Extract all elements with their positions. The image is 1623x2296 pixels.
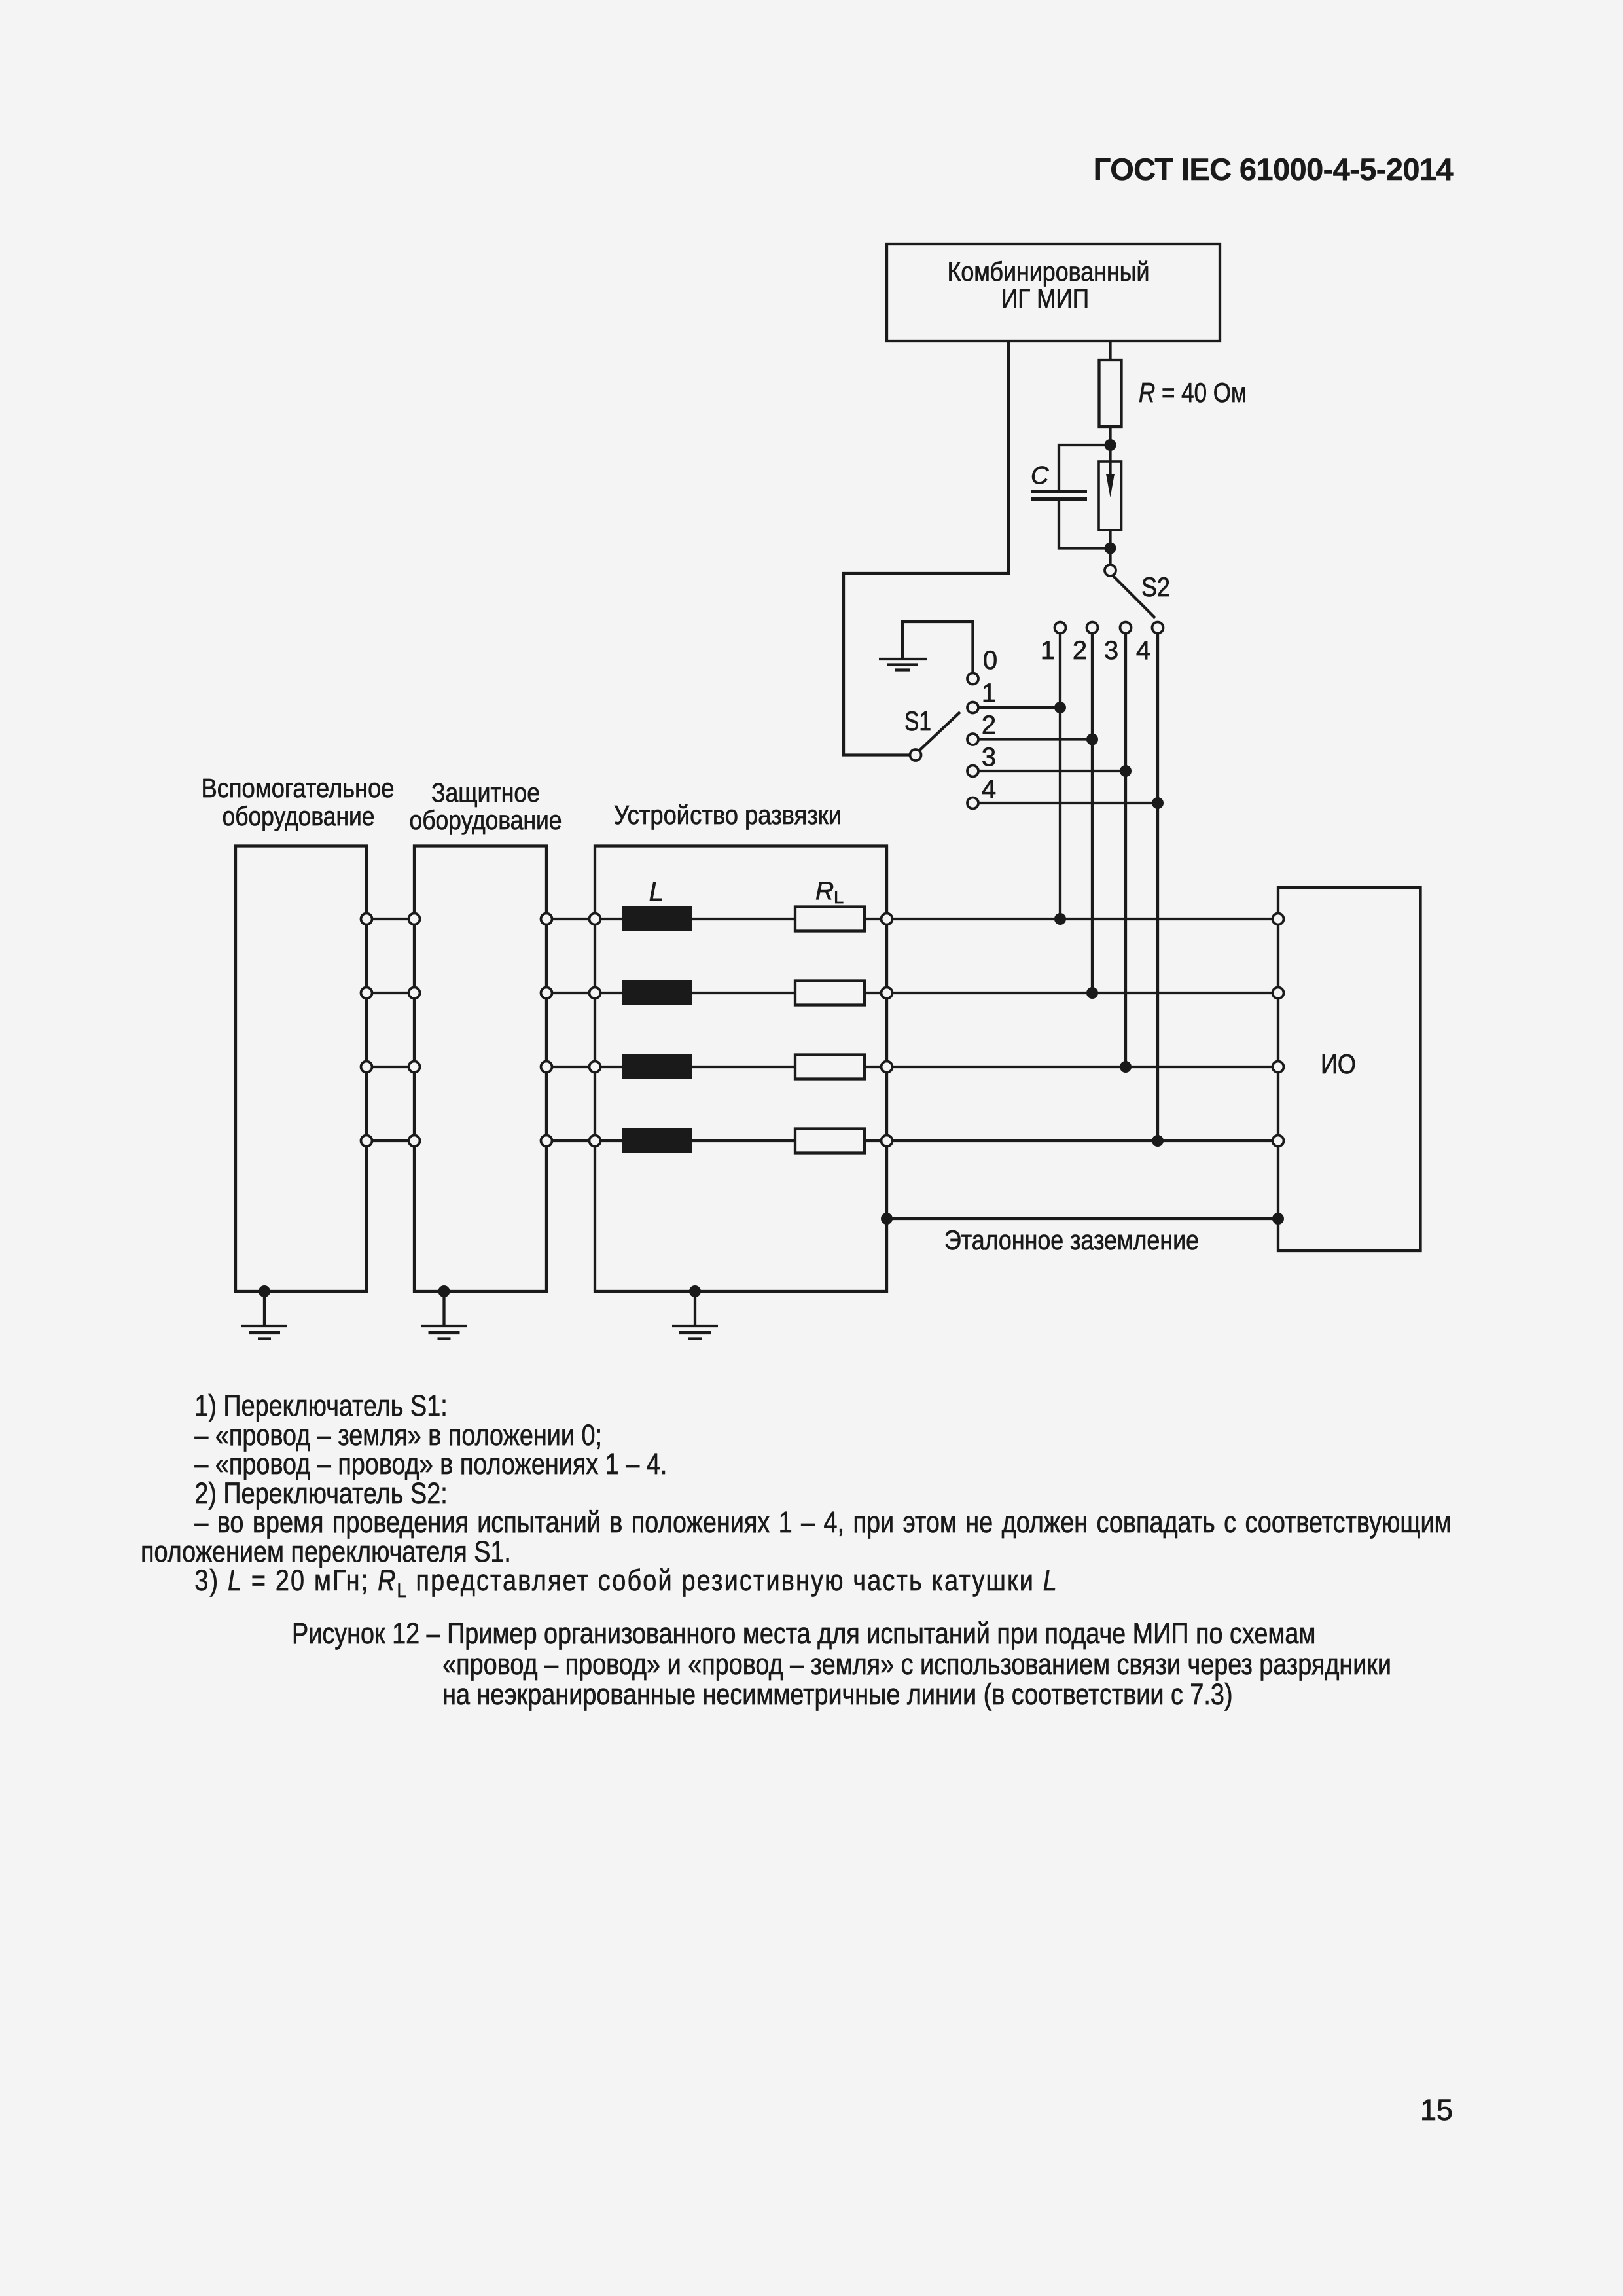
svg-text:ИО: ИО (1321, 1049, 1356, 1079)
svg-text:оборудование: оборудование (410, 805, 562, 835)
row 4: wire decoupling to EUT (893, 1139, 1273, 1142)
wire S1 contact 1 to net 1 (978, 706, 1060, 709)
svg-text:Защитное: Защитное (431, 778, 540, 808)
junction net 3 / line row 3 (1120, 1061, 1132, 1073)
wire net 2 vertical (1091, 634, 1094, 994)
ground (S1 position 0) (879, 659, 927, 670)
S2 contact 1 (1055, 622, 1066, 634)
svg-text:Комбинированный: Комбинированный (948, 257, 1150, 287)
junction net 4 / line row 4 (1152, 1135, 1164, 1147)
row 3: wire resistor to port (865, 1066, 882, 1068)
row 4: wire aux to protective (366, 1139, 414, 1142)
row 3 port on aux box (361, 1062, 372, 1073)
row 3: wire decoupling to EUT (893, 1066, 1273, 1068)
svg-text:2: 2 (982, 711, 996, 740)
wire S1 contact 3 to net 3 (978, 770, 1126, 772)
resistor R (1099, 360, 1122, 427)
row 2 port on decoupling box left (590, 988, 601, 999)
reference earth wire (887, 1217, 1278, 1220)
auxiliary equipment box (236, 846, 366, 1292)
row 2: wire aux to protective (366, 992, 414, 994)
ground decoupling box (672, 1291, 718, 1339)
row 4: wire protective to decoupling (546, 1139, 595, 1142)
svg-text:L: L (649, 876, 664, 906)
junction aux box ground (259, 1285, 270, 1297)
S1 contact 1 (967, 702, 978, 713)
svg-text:4: 4 (982, 775, 996, 804)
row 3 port on EUT (1273, 1062, 1284, 1073)
row 3 port on decoupling box right (882, 1062, 893, 1073)
row 2: wire decoupling to EUT (893, 992, 1273, 994)
junction net 3 / S1 contact 3 (1120, 765, 1132, 777)
row 4: wire resistor to port (865, 1139, 882, 1142)
protective equipment box (414, 846, 546, 1292)
ground protective box (421, 1291, 467, 1339)
row 2: wire port to inductor (601, 992, 623, 994)
row 2 port on protective box left (409, 988, 420, 999)
svg-text:S2: S2 (1141, 571, 1170, 602)
wire node A to capacitor top (1059, 445, 1111, 491)
row 2: wire inductor to resistor (692, 992, 795, 994)
row 2 port on decoupling box right (882, 988, 893, 999)
junction net 2 / S1 contact 2 (1086, 734, 1098, 745)
figure caption (292, 1619, 1556, 1710)
row 4 port on aux box (361, 1136, 372, 1147)
wire S1 contact 2 to net 2 (978, 738, 1092, 740)
row 4 port on EUT (1273, 1136, 1284, 1147)
switch S2 blade (1113, 576, 1156, 619)
wire node B to switch S2 pole (1109, 554, 1111, 565)
wire net 4 vertical (1156, 634, 1159, 1141)
wire resistor bottom to node A (1109, 427, 1111, 445)
wire capacitor bottom to node B (1059, 501, 1111, 548)
junction decoupling box ground (689, 1285, 701, 1297)
svg-text:Вспомогательное: Вспомогательное (202, 773, 395, 803)
generator box "Комбинированный ИГ МИП" (887, 244, 1220, 341)
svg-text:ИГ МИП: ИГ МИП (1001, 283, 1089, 314)
resistor RL row 3 (795, 1055, 865, 1079)
row 2 port on aux box (361, 988, 372, 999)
label protective equipment (410, 778, 562, 835)
row 3 port on protective box left (409, 1062, 420, 1073)
EUT box ИО (1278, 888, 1421, 1251)
svg-text:RL: RL (815, 877, 844, 907)
resistor RL row 2 (795, 981, 865, 1005)
capacitor C bottom plate (1031, 497, 1087, 501)
inductor L row 3 (622, 1054, 692, 1079)
S1 contact 3 (967, 766, 978, 777)
wire S1 contact 4 to net 4 (978, 802, 1158, 804)
row 3: wire port to inductor (601, 1066, 623, 1068)
svg-text:S1: S1 (904, 706, 931, 736)
row 4 port on protective box right (541, 1136, 552, 1147)
decoupling device box (595, 846, 887, 1292)
inductor L row 4 (622, 1128, 692, 1153)
row 1: wire resistor to port (865, 918, 882, 920)
ground aux box (241, 1291, 287, 1339)
svg-text:R = 40 Ом: R = 40 Ом (1139, 377, 1247, 408)
junction net 2 / line row 2 (1086, 987, 1098, 999)
page number (0, 2093, 1453, 2127)
label auxiliary equipment (202, 773, 395, 831)
svg-text:C: C (1031, 462, 1049, 490)
page header (0, 153, 1453, 186)
row 4 port on decoupling box right (882, 1136, 893, 1147)
row 1 port on protective box left (409, 914, 420, 925)
wire net 1 vertical (1059, 634, 1061, 920)
row 1 port on decoupling box left (590, 914, 601, 925)
svg-text:2: 2 (1073, 636, 1087, 665)
row 3: wire aux to protective (366, 1066, 414, 1068)
row 1 port on EUT (1273, 914, 1284, 925)
row 4: wire inductor to resistor (692, 1139, 795, 1142)
svg-text:1: 1 (1041, 636, 1055, 665)
wire generator left output down-left-down to switch S1 pole (844, 341, 1008, 755)
svg-text:0: 0 (983, 646, 997, 675)
S1 contact 0 (967, 673, 978, 685)
wire arrester bottom to node B (1109, 530, 1111, 548)
svg-text:Устройство развязки: Устройство развязки (614, 800, 842, 830)
row 1: wire decoupling to EUT (893, 918, 1273, 920)
surge arrester (1099, 445, 1122, 530)
row 1: wire port to inductor (601, 918, 623, 920)
row 3: wire protective to decoupling (546, 1066, 595, 1068)
row 1: wire protective to decoupling (546, 918, 595, 920)
junction net 1 / line row 1 (1054, 913, 1066, 925)
wire net 3 vertical (1124, 634, 1127, 1067)
svg-text:3: 3 (1104, 636, 1118, 665)
node B junction dot (1105, 543, 1116, 554)
svg-text:4: 4 (1136, 636, 1150, 665)
row 1 port on protective box right (541, 914, 552, 925)
S2 contact 2 (1087, 622, 1098, 634)
junction protective box ground (438, 1285, 450, 1297)
row 2 port on EUT (1273, 988, 1284, 999)
wire generator right output to resistor R (1109, 341, 1111, 360)
S1 contact 2 (967, 734, 978, 745)
row 4 port on decoupling box left (590, 1136, 601, 1147)
capacitor C top plate (1031, 490, 1087, 493)
svg-text:оборудование: оборудование (223, 801, 375, 831)
row 4: wire port to inductor (601, 1139, 623, 1142)
resistor RL row 1 (795, 907, 865, 931)
row 4 port on protective box left (409, 1136, 420, 1147)
row 3: wire inductor to resistor (692, 1066, 795, 1068)
junction reference earth / EUT (1272, 1213, 1284, 1225)
row 2: wire protective to decoupling (546, 992, 595, 994)
inductor L row 1 (622, 906, 692, 931)
row 1 port on aux box (361, 914, 372, 925)
svg-text:Эталонное заземление: Эталонное заземление (944, 1225, 1199, 1255)
inductor L row 2 (622, 980, 692, 1005)
notes text (141, 1391, 1452, 1606)
junction reference earth / decoupling box (881, 1213, 893, 1225)
S1 contact 4 (967, 798, 978, 809)
wire ground to S1 contact 0 (902, 622, 973, 673)
row 2 port on protective box right (541, 988, 552, 999)
S2 contact 4 (1152, 622, 1164, 634)
junction net 4 / S1 contact 4 (1152, 797, 1164, 809)
row 1: wire inductor to resistor (692, 918, 795, 920)
switch S1 pole contact (910, 749, 921, 761)
svg-text:1: 1 (982, 679, 996, 708)
row 3 port on protective box right (541, 1062, 552, 1073)
resistor RL row 4 (795, 1129, 865, 1153)
svg-text:3: 3 (982, 743, 996, 772)
row 1 port on decoupling box right (882, 914, 893, 925)
switch S2 pole contact (1105, 565, 1116, 576)
row 1: wire aux to protective (366, 918, 414, 920)
junction net 1 / S1 contact 1 (1054, 702, 1066, 713)
row 3 port on decoupling box left (590, 1062, 601, 1073)
S2 contact 3 (1120, 622, 1132, 634)
row 2: wire resistor to port (865, 992, 882, 994)
node A junction dot (1105, 439, 1116, 451)
switch S1 blade (919, 712, 961, 751)
